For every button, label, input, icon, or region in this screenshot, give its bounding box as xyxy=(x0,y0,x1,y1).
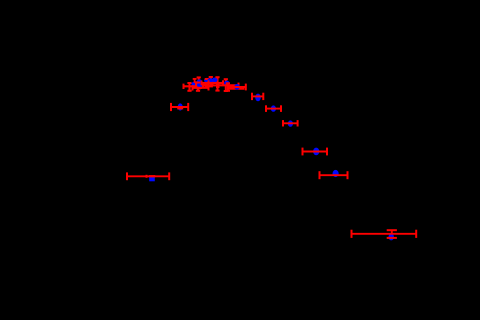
data point C2: blue marker with red error bars xyxy=(196,77,207,88)
data point C6: blue marker with red error bars xyxy=(209,77,224,90)
data point C5: blue marker with red error bars xyxy=(203,77,219,88)
data point F: blue marker with red error bars xyxy=(283,120,298,127)
data point E: blue marker with red error bars xyxy=(266,105,281,112)
point A top cap over marker xyxy=(149,175,155,177)
data point D: blue marker with red error bars xyxy=(252,93,263,102)
data point C7: blue marker with red error bars xyxy=(217,79,239,91)
data point G: blue marker with red error bars xyxy=(303,148,328,156)
point B cap over marker xyxy=(177,106,183,109)
data point B: blue marker with red error bars xyxy=(171,103,188,111)
data point C8: blue marker with red error bars xyxy=(226,83,246,91)
data point A: blue marker with red error bars xyxy=(127,172,169,181)
point A inner cap stub xyxy=(146,175,148,178)
cluster spike above C1 xyxy=(193,79,197,83)
data point C1: blue marker with red error bars xyxy=(184,82,202,91)
data point H: blue marker with red error bars xyxy=(320,170,348,179)
data point C3: blue marker with red error bars xyxy=(193,82,209,90)
data point I: blue marker with red error bars xyxy=(352,230,417,241)
data point C4: blue marker with red error bars xyxy=(202,78,213,86)
cluster filler bar xyxy=(228,88,245,90)
